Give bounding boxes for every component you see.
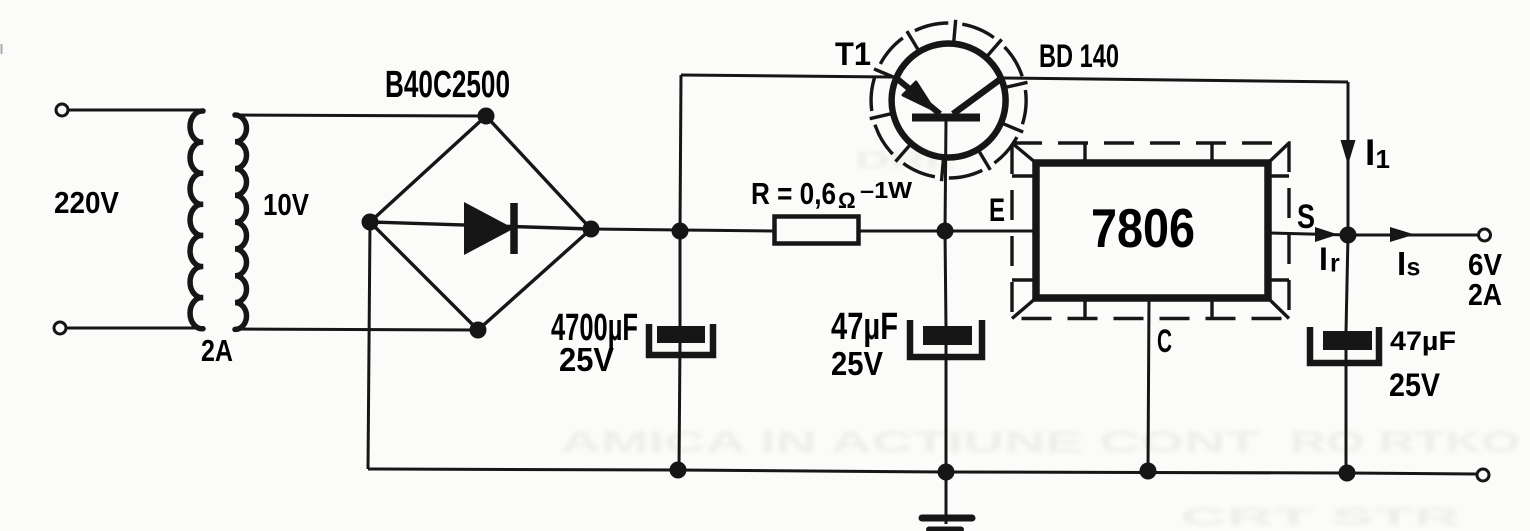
svg-text:r: r — [1330, 250, 1340, 278]
wire: top terminal to primary — [68, 109, 203, 112]
label 47uF 25V out — [1389, 326, 1456, 403]
svg-text:25V: 25V — [1389, 367, 1441, 403]
output terminal top — [1479, 229, 1491, 241]
arrow I1 on collector drop — [1341, 140, 1356, 165]
svg-text:B40C2500: B40C2500 — [385, 64, 510, 106]
wire: bottom terminal to primary — [66, 327, 203, 330]
svg-text:Ω: Ω — [838, 188, 856, 213]
wire: bridge right to resistor — [591, 229, 774, 231]
svg-text:47µF: 47µF — [1390, 326, 1456, 356]
wire: base node to 47uF mid — [945, 231, 946, 328]
ghost bleed-through text — [560, 147, 1520, 531]
capacitor C1 4700uF — [649, 324, 713, 355]
label 4700uF 25V — [551, 307, 638, 378]
svg-text:10V: 10V — [263, 187, 309, 222]
heatsink dashed rect around 7806 — [1012, 143, 1289, 319]
node: output junction — [1340, 227, 1357, 244]
collector — [953, 78, 1002, 114]
svg-text:47µF: 47µF — [831, 306, 898, 348]
node: bridge left — [362, 214, 379, 231]
transistor T1 — [892, 44, 1006, 232]
wire: output to terminal with Is arrow — [1348, 234, 1478, 237]
svg-text:I: I — [1365, 132, 1375, 173]
heatsink dashed circle around T1 — [870, 20, 1028, 181]
corner ticks — [1012, 143, 1036, 163]
svg-text:BD 140: BD 140 — [1039, 38, 1119, 74]
wire: C pin to ground rail — [1148, 298, 1149, 471]
node: base junction — [937, 223, 954, 240]
base bar — [912, 114, 980, 122]
wire: top rail right of T1 — [1002, 78, 1348, 82]
wire: bottom rail — [368, 469, 1476, 474]
wire: secondary bottom to bridge bottom — [235, 329, 478, 330]
svg-text:R = 0,6: R = 0,6 — [751, 176, 836, 211]
input terminal bottom — [54, 322, 66, 334]
svg-text:1: 1 — [1376, 144, 1390, 174]
svg-text:I: I — [1397, 245, 1406, 282]
scan edge artifact — [1, 44, 3, 54]
svg-text:25V: 25V — [831, 345, 883, 382]
wire: 47uF out to bottom rail — [1345, 350, 1348, 473]
bridge diode — [464, 202, 514, 255]
wire: secondary top to bridge top — [235, 115, 486, 116]
wire: left vertical from bridge left vertex — [368, 222, 370, 469]
svg-text:T1: T1 — [835, 36, 871, 72]
ticks sides — [1012, 174, 1036, 177]
svg-text:–1W: –1W — [860, 177, 912, 203]
node: filter cap junction — [672, 223, 689, 240]
svg-text:CRT STR: CRT STR — [1180, 504, 1460, 531]
regulator 7806 box — [1036, 163, 1268, 298]
svg-text:25V: 25V — [559, 341, 614, 378]
transformer primary winding — [190, 111, 203, 329]
wire: 4700uF to bottom rail — [679, 343, 680, 470]
bridge rectifier B40C2500 — [370, 116, 591, 330]
svg-text:AMICA IN ACTIUNE CONT: AMICA IN ACTIUNE CONT — [560, 426, 1260, 459]
node: output cap bottom — [1339, 465, 1356, 482]
capacitor C3 47uF — [1310, 327, 1379, 363]
output terminal bottom — [1477, 469, 1489, 481]
wire: 47uF mid to ground junction — [945, 345, 948, 472]
wire: node to 4700uF — [679, 231, 682, 328]
transformer secondary winding — [235, 115, 247, 329]
emitter with arrow — [895, 77, 940, 114]
resistor R1 — [775, 217, 859, 244]
label 47uF 25V mid — [831, 306, 898, 382]
node: ground junction — [938, 464, 955, 481]
ticks top — [1083, 143, 1086, 163]
svg-text:220V: 220V — [54, 185, 119, 220]
svg-text:E: E — [989, 192, 1005, 228]
node: C on ground rail — [1140, 463, 1157, 480]
svg-text:C: C — [1157, 323, 1172, 359]
svg-text:7806: 7806 — [1091, 197, 1195, 259]
svg-text:I: I — [1319, 241, 1328, 277]
node: cap4700 bottom — [670, 462, 687, 479]
wire: resistor to regulator input — [858, 230, 1036, 233]
body circle — [892, 44, 1006, 158]
input terminal top — [56, 104, 68, 116]
wire: riser to top rail — [680, 75, 681, 231]
svg-text:RO RTKO: RO RTKO — [1290, 426, 1520, 459]
capacitor C2 47uF — [910, 320, 982, 357]
wire: output node to 47uF out — [1346, 235, 1348, 332]
node: bridge right — [583, 221, 600, 238]
svg-text:2A: 2A — [1468, 277, 1502, 312]
wire: top rail left of T1 — [681, 75, 895, 77]
node: bridge top — [478, 108, 495, 125]
svg-text:2A: 2A — [201, 333, 233, 368]
ticks bottom — [1083, 298, 1086, 319]
wire: collector drop to output node — [1347, 82, 1350, 235]
base lead — [945, 120, 946, 231]
wire: regulator output with Ir arrow — [1268, 233, 1348, 235]
svg-text:s: s — [1407, 254, 1421, 282]
svg-text:S: S — [1297, 198, 1315, 236]
node: bridge bottom — [470, 322, 487, 339]
ground — [945, 472, 948, 524]
